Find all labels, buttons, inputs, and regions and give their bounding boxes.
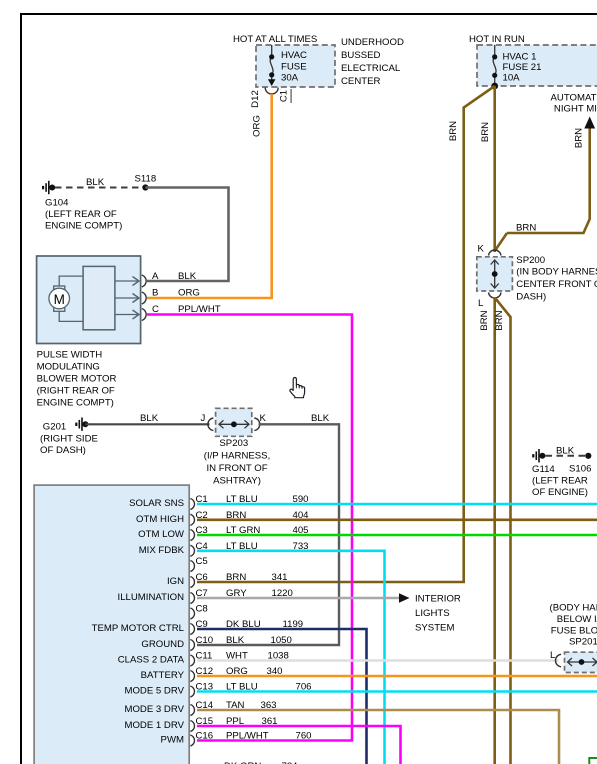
svg-text:MIX FDBK: MIX FDBK <box>139 545 185 556</box>
svg-text:UNDERHOOD: UNDERHOOD <box>341 37 404 48</box>
fuse box (I/P fuse block, dashed, clipped at right edge) <box>477 45 597 86</box>
svg-text:CENTER: CENTER <box>341 76 381 87</box>
svg-text:FUSE: FUSE <box>281 62 307 73</box>
svg-text:L: L <box>478 298 484 309</box>
splice SP201 node dot <box>579 659 585 665</box>
connector arc below SP200 <box>489 293 502 299</box>
svg-text:1050: 1050 <box>271 635 292 646</box>
svg-text:B: B <box>152 288 158 299</box>
svg-text:HOT AT ALL TIMES: HOT AT ALL TIMES <box>233 34 317 45</box>
svg-text:INTERIOR: INTERIOR <box>415 594 461 605</box>
svg-text:BRN: BRN <box>479 310 490 330</box>
svg-text:BATTERY: BATTERY <box>141 670 185 681</box>
wire ORG 340 from C12 <box>197 675 597 678</box>
svg-text:(IN BODY HARNESS,: (IN BODY HARNESS, <box>516 267 597 278</box>
fuse HVAC 1 FUSE 21 element <box>493 45 496 85</box>
svg-text:PPL/WHT: PPL/WHT <box>226 731 269 742</box>
svg-text:(LEFT REAR OF: (LEFT REAR OF <box>45 209 117 220</box>
node S118 dot <box>142 184 148 190</box>
svg-text:760: 760 <box>296 731 312 742</box>
svg-text:C8: C8 <box>196 604 208 615</box>
connector arc left of SP203 <box>208 418 214 431</box>
mouse hand cursor <box>290 377 305 397</box>
svg-text:J: J <box>201 413 206 424</box>
svg-text:BLK: BLK <box>311 413 330 424</box>
svg-text:ORG: ORG <box>178 288 200 299</box>
svg-text:M: M <box>54 292 65 307</box>
svg-text:30A: 30A <box>281 73 299 84</box>
splice SP200 internal double arrow <box>491 260 499 288</box>
ground G114 symbol <box>532 449 545 462</box>
wire LT BLU 706 from C13 <box>197 690 597 693</box>
wire LT BLU 590 from C1 <box>197 503 597 506</box>
svg-text:TEMP MOTOR CTRL: TEMP MOTOR CTRL <box>92 623 185 634</box>
connector arc left of SP201 <box>555 654 561 667</box>
splice SP203 box (dashed) <box>216 408 252 436</box>
svg-text:K: K <box>260 413 267 424</box>
svg-text:MODE 3 DRV: MODE 3 DRV <box>124 704 184 715</box>
wire LT BLU 733 from C4 <box>197 551 385 764</box>
blower pin lines with arrows A B C <box>115 281 138 315</box>
svg-text:HVAC: HVAC <box>281 50 307 61</box>
svg-text:BRN: BRN <box>448 121 459 141</box>
svg-text:BLK: BLK <box>178 271 197 282</box>
wire BLK dashed G104 to S118 <box>55 187 142 189</box>
wire BRN from SP200 L branch diagonal to right vertical <box>496 299 511 764</box>
svg-text:BLK: BLK <box>140 413 159 424</box>
svg-text:BLOWER MOTOR: BLOWER MOTOR <box>37 374 117 385</box>
splice SP200 node dot <box>492 271 498 277</box>
svg-text:OF ENGINE): OF ENGINE) <box>532 487 588 498</box>
svg-text:MODULATING: MODULATING <box>37 362 100 373</box>
svg-text:C5: C5 <box>196 556 208 567</box>
pin arcs C1-C16 <box>190 499 194 747</box>
svg-text:BRN: BRN <box>574 128 585 148</box>
splice SP203 node dot <box>231 421 237 427</box>
fuse box UNDERHOOD BUSSED ELECTRICAL CENTER (dashed) <box>256 45 335 87</box>
arrow to interior lights system <box>399 593 410 603</box>
svg-text:(RIGHT SIDE: (RIGHT SIDE <box>40 434 98 445</box>
svg-text:C10: C10 <box>196 635 214 646</box>
svg-text:SOLAR SNS: SOLAR SNS <box>129 498 184 509</box>
ground G201 symbol <box>75 418 88 431</box>
svg-text:CENTER FRONT OF: CENTER FRONT OF <box>516 279 597 290</box>
connector arc right of SP203 <box>254 418 260 431</box>
svg-text:A: A <box>152 271 159 282</box>
svg-text:G201: G201 <box>43 422 66 433</box>
svg-text:ELECTRICAL: ELECTRICAL <box>341 63 401 74</box>
splice SP200 box (dashed) <box>477 257 513 291</box>
svg-text:G104: G104 <box>45 198 69 209</box>
svg-text:ORG: ORG <box>252 115 263 137</box>
splice SP201 internal double arrow <box>568 658 597 666</box>
wire BLK SP203 K to connector C10 GROUND <box>197 424 339 645</box>
svg-text:IGN: IGN <box>167 576 184 587</box>
svg-text:AUTOMATIC DAY/: AUTOMATIC DAY/ <box>551 93 597 104</box>
svg-text:OF DASH): OF DASH) <box>40 445 86 456</box>
svg-text:SP200: SP200 <box>516 255 545 266</box>
wire BRN 404 from C2 <box>197 518 597 521</box>
svg-text:BLK: BLK <box>86 177 105 188</box>
svg-text:BELOW I/P: BELOW I/P <box>557 614 597 625</box>
wire DK BLU 1199 from C9 <box>197 629 367 764</box>
wire GRY 1220 from C7 to interior lights <box>197 597 399 600</box>
wire PPL/WHT blower pin C to connector C16 <box>147 315 352 741</box>
motor internal wiring <box>59 276 83 321</box>
connector C1 half-circle below fuse1 <box>265 88 278 95</box>
svg-text:C16: C16 <box>196 731 214 742</box>
blower motor outer box <box>37 256 141 344</box>
svg-text:HOT IN RUN: HOT IN RUN <box>469 34 525 45</box>
svg-text:ENGINE COMPT): ENGINE COMPT) <box>37 398 114 409</box>
wire BRN from SP200 L down (left vertical) <box>493 298 496 764</box>
svg-text:(LEFT REAR: (LEFT REAR <box>532 476 588 487</box>
svg-text:BUSSED: BUSSED <box>341 50 381 61</box>
svg-text:C1: C1 <box>279 90 290 102</box>
svg-text:OTM LOW: OTM LOW <box>138 529 185 540</box>
blower motor control module inner box <box>83 266 115 329</box>
svg-text:PULSE WIDTH: PULSE WIDTH <box>37 350 103 361</box>
svg-text:341: 341 <box>272 572 288 583</box>
svg-text:D12: D12 <box>250 90 261 108</box>
svg-text:GROUND: GROUND <box>141 639 184 650</box>
svg-text:IN FRONT OF: IN FRONT OF <box>206 463 267 474</box>
svg-text:BRN: BRN <box>480 122 491 142</box>
svg-text:BRN: BRN <box>516 223 536 234</box>
svg-text:ENGINE COMPT): ENGINE COMPT) <box>45 221 122 232</box>
arrow to automatic day/night mirror <box>584 117 595 129</box>
wire ORG from fuse1 to blower pin B <box>147 94 272 298</box>
node S106 dot <box>585 453 591 459</box>
svg-text:CLASS 2 DATA: CLASS 2 DATA <box>118 655 185 666</box>
svg-text:SYSTEM: SYSTEM <box>415 623 454 634</box>
svg-text:MODE 5 DRV: MODE 5 DRV <box>124 686 184 697</box>
svg-text:ILLUMINATION: ILLUMINATION <box>118 592 185 603</box>
wire TAN 363 from C14 <box>197 710 559 764</box>
svg-text:(RIGHT REAR OF: (RIGHT REAR OF <box>37 386 115 397</box>
svg-text:G114: G114 <box>532 464 555 475</box>
svg-text:DASH): DASH) <box>516 292 546 303</box>
wire BLK G201 to SP203 pin J <box>85 423 209 425</box>
node junction at fuse2 output <box>491 83 498 90</box>
svg-text:(BODY HARNESS,: (BODY HARNESS, <box>550 603 597 614</box>
svg-text:LIGHTS: LIGHTS <box>415 608 450 619</box>
text cursor bar after C1 <box>291 89 292 103</box>
wire PPL 361 from C15 <box>197 726 401 764</box>
svg-text:S118: S118 <box>135 174 157 185</box>
svg-text:ASHTRAY): ASHTRAY) <box>213 476 261 487</box>
svg-text:MODE 1 DRV: MODE 1 DRV <box>124 720 184 731</box>
svg-text:K: K <box>478 244 485 255</box>
svg-text:OTM HIGH: OTM HIGH <box>136 514 184 525</box>
page border frame left <box>20 13 22 764</box>
svg-text:SP201: SP201 <box>569 637 597 648</box>
wire BLK dashed G114 to S106 <box>546 455 586 457</box>
wire BRN diagonal into SP200 K <box>495 233 507 251</box>
svg-text:HVAC 1: HVAC 1 <box>503 52 537 63</box>
svg-text:FUSE BLOCK): FUSE BLOCK) <box>551 626 597 637</box>
HVAC control module connector box <box>34 485 189 764</box>
blower pin connector arcs <box>142 275 146 321</box>
svg-text:SP203: SP203 <box>219 438 248 449</box>
green box corner (bottom right) <box>589 758 597 764</box>
svg-text:BRN: BRN <box>226 572 246 583</box>
wire BRN to automatic day/night mirror with arrow <box>507 127 590 233</box>
svg-text:C6: C6 <box>196 572 208 583</box>
ground G104 symbol <box>42 181 55 194</box>
svg-text:PWM: PWM <box>161 735 184 746</box>
motor M brush bars <box>54 286 65 290</box>
page border frame top <box>20 13 597 15</box>
wire WHT 1038 from C11 to SP201 <box>197 659 559 662</box>
splice SP201 box (dashed, clipped) <box>565 652 597 672</box>
svg-text:BRN: BRN <box>494 310 505 330</box>
svg-text:BLK: BLK <box>226 635 245 646</box>
svg-text:10A: 10A <box>503 73 521 84</box>
motor M circle <box>49 288 70 309</box>
connector arc above SP200 <box>489 250 502 256</box>
wire BRN fuse2 branch to C6 IGN <box>197 86 495 582</box>
wire BRN fuse2 to SP200 (vertical) <box>493 86 496 252</box>
wire BLK S118 to blower pin A <box>145 188 228 282</box>
splice SP203 internal double arrow <box>219 420 249 428</box>
svg-text:(I/P HARNESS,: (I/P HARNESS, <box>204 451 270 462</box>
wire LT GRN 405 from C3 <box>197 534 597 537</box>
svg-text:FUSE 21: FUSE 21 <box>503 62 542 73</box>
svg-text:S106: S106 <box>569 464 591 475</box>
fuse HVAC FUSE 30A element <box>270 45 273 80</box>
svg-text:NIGHT MIRROR: NIGHT MIRROR <box>554 104 597 115</box>
